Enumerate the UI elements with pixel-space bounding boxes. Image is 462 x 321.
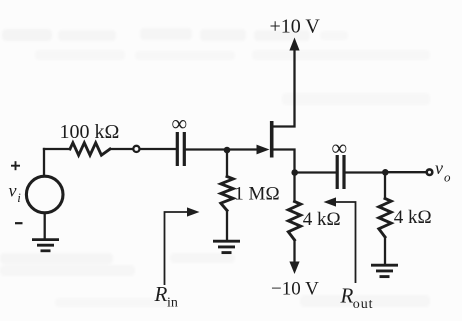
transistor Q1 gate arrow bbox=[257, 145, 270, 155]
wire source node to capacitor C2 bbox=[295, 171, 336, 173]
ground (1 MΩ) bbox=[213, 241, 240, 252]
resistor R 4 kΩ output bbox=[379, 199, 391, 238]
svg-text:in: in bbox=[167, 296, 178, 311]
power +10 V arrow bbox=[289, 38, 299, 51]
wire drain tap bbox=[274, 48, 295, 127]
svg-text:R: R bbox=[340, 284, 354, 308]
resistor R 100 kΩ bbox=[70, 143, 110, 155]
node source dot bbox=[291, 169, 298, 176]
terminal vo open circle bbox=[427, 169, 433, 175]
resistor R 4 kΩ source bbox=[288, 202, 300, 241]
capacitor C1 infinite bbox=[177, 132, 184, 166]
wire 1 MΩ to ground bbox=[226, 211, 228, 240]
wire input left vertical bbox=[43, 149, 45, 176]
wire output node to terminal bbox=[385, 171, 425, 173]
svg-text:−10 V: −10 V bbox=[271, 279, 319, 300]
supply -10 V arrow bbox=[289, 262, 299, 275]
svg-text:∞: ∞ bbox=[332, 135, 348, 160]
wire 4 kΩ to ground bbox=[384, 237, 386, 264]
svg-text:4 kΩ: 4 kΩ bbox=[303, 209, 341, 230]
wire output node to 4 kΩ bbox=[384, 173, 386, 199]
label − of source bbox=[15, 222, 23, 224]
capacitor C2 infinite bbox=[337, 155, 344, 189]
wire capacitor C1 to gate bbox=[186, 148, 261, 150]
resistor R 1 MΩ bbox=[221, 177, 233, 211]
svg-text:∞: ∞ bbox=[172, 110, 188, 135]
ground (source) bbox=[32, 240, 59, 251]
svg-text:100 kΩ: 100 kΩ bbox=[60, 121, 120, 143]
svg-text:4 kΩ: 4 kΩ bbox=[394, 207, 432, 228]
wire 4 kΩ to -10V arrow bbox=[293, 240, 295, 264]
svg-text:i: i bbox=[17, 190, 21, 205]
svg-text:v: v bbox=[9, 181, 17, 201]
svg-text:+10 V: +10 V bbox=[270, 16, 321, 38]
ground (output) bbox=[371, 265, 398, 276]
node output dot bbox=[382, 169, 389, 176]
svg-text:o: o bbox=[444, 170, 451, 185]
wire node to 1 MΩ resistor bbox=[226, 149, 228, 177]
wire open node to capacitor C1 bbox=[141, 148, 175, 150]
svg-text:out: out bbox=[353, 297, 374, 312]
wire capacitor C2 to output node bbox=[346, 171, 386, 173]
svg-text:v: v bbox=[435, 158, 443, 178]
Rout measurement arrow bbox=[332, 202, 356, 283]
wire resistor to open node bbox=[110, 148, 132, 150]
svg-text:1 MΩ: 1 MΩ bbox=[234, 184, 279, 205]
wire input horizontal to resistor bbox=[44, 148, 70, 150]
node A (gate node dot) bbox=[224, 147, 231, 154]
wire source node to 4 kΩ bbox=[293, 173, 295, 202]
transistor Q1 channel bar bbox=[270, 121, 274, 158]
Rin measurement arrow bbox=[165, 212, 192, 285]
wire source tap bbox=[274, 150, 295, 173]
label + of source bbox=[11, 161, 20, 170]
wire source to ground bbox=[44, 213, 46, 239]
svg-text:R: R bbox=[154, 282, 168, 306]
voltage source vi bbox=[26, 176, 63, 213]
node open circle bbox=[133, 146, 139, 152]
